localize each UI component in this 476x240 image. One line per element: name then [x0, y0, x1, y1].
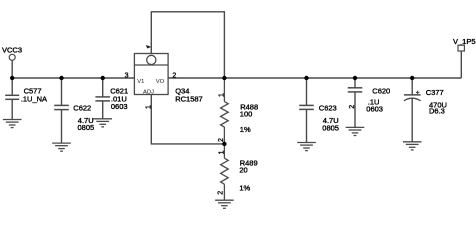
- capacitor C622: [54, 78, 69, 143]
- svg-text:100: 100: [240, 110, 253, 119]
- ground (C621): [93, 119, 112, 127]
- svg-text:1%: 1%: [239, 184, 250, 193]
- svg-text:0603: 0603: [366, 105, 383, 114]
- svg-text:ADJ: ADJ: [143, 90, 154, 96]
- svg-text:20: 20: [239, 166, 247, 175]
- svg-text:C377: C377: [426, 88, 444, 97]
- svg-text:C620: C620: [372, 87, 390, 96]
- ground (C622): [52, 143, 71, 151]
- capacitor C577: [5, 78, 19, 120]
- capacitor C621: [95, 78, 110, 119]
- svg-text:1: 1: [219, 93, 226, 97]
- svg-text:C622: C622: [73, 104, 91, 113]
- svg-text:V1: V1: [137, 79, 144, 85]
- node junction dots: [10, 76, 414, 146]
- svg-text:D6.3: D6.3: [429, 107, 445, 116]
- svg-text:C623: C623: [319, 104, 337, 113]
- svg-text:VCC3: VCC3: [2, 46, 22, 55]
- ground (C623): [297, 143, 316, 151]
- resistor R489: [221, 144, 229, 200]
- svg-text:0805: 0805: [78, 123, 95, 132]
- wire V_1P5 vertical drop: [460, 51, 462, 78]
- capacitor C623: [299, 78, 314, 143]
- capacitor C377 (polarized): [404, 78, 421, 142]
- svg-text:.1U_NA: .1U_NA: [21, 94, 47, 103]
- ground (C377): [403, 142, 422, 150]
- wire main rail left (VCC3 node to U pin3): [12, 77, 134, 79]
- ground (C577): [3, 120, 22, 128]
- regulator Q34 RC1587: [134, 54, 202, 104]
- resistor R488: [221, 78, 229, 144]
- svg-text:1: 1: [145, 105, 152, 109]
- svg-text:3: 3: [125, 73, 129, 80]
- svg-text:2: 2: [218, 191, 225, 195]
- wire main rail right (pin2 to V_1P5 drop): [168, 77, 461, 79]
- svg-text:RC1587: RC1587: [175, 95, 203, 104]
- svg-text:VO: VO: [156, 79, 165, 85]
- svg-text:1%: 1%: [240, 125, 251, 134]
- capacitor C620: [348, 78, 363, 127]
- svg-text:0805: 0805: [322, 123, 339, 132]
- wire ADJ pin down and right to divider node: [151, 95, 224, 144]
- power port V_1P5: [453, 37, 476, 51]
- ground (R489): [215, 200, 234, 208]
- svg-text:2: 2: [349, 105, 356, 109]
- wire tab loop from regulator top to output node: [151, 12, 224, 78]
- pin arrow on tab wire: [146, 45, 152, 49]
- ground (C620): [346, 127, 365, 135]
- svg-text:2: 2: [218, 138, 225, 142]
- svg-text:2: 2: [172, 72, 176, 79]
- svg-text:0603: 0603: [111, 102, 128, 111]
- power symbol VCC3: [2, 46, 22, 78]
- svg-text:1: 1: [218, 150, 225, 154]
